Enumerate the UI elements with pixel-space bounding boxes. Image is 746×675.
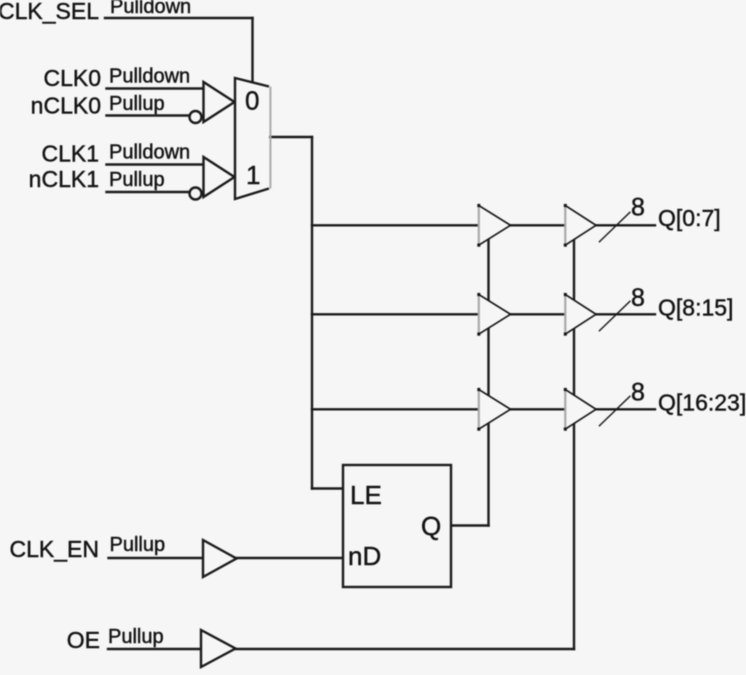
svg-text:LE: LE (350, 480, 382, 510)
buffer row3 stage1 (477, 388, 510, 431)
svg-text:Pulldown: Pulldown (109, 66, 190, 88)
bus slash row1 (599, 212, 630, 242)
buffer row2 stage1 (477, 293, 510, 336)
buffer row1 stage2 (564, 204, 596, 247)
wire branch row2 (312, 313, 479, 315)
wire latch Q output (451, 524, 489, 526)
svg-text:8: 8 (631, 194, 645, 222)
wire branch row3 (312, 408, 479, 410)
inverting bubble nCLK0 (190, 111, 202, 123)
bus slash row2 (599, 301, 630, 331)
svg-text:8: 8 (631, 379, 645, 407)
svg-text:Q[0:7]: Q[0:7] (658, 205, 721, 231)
buffer OE (201, 630, 236, 667)
svg-text:Q[16:23]: Q[16:23] (658, 390, 746, 416)
svg-text:1: 1 (246, 160, 260, 190)
svg-text:Pulldown: Pulldown (109, 142, 190, 164)
wire mux output to trunk (269, 136, 312, 138)
wire CLK_EN buffer to nD pin (237, 557, 344, 559)
differential input buffer CLK0/nCLK0 (204, 82, 235, 122)
svg-text:Q[8:15]: Q[8:15] (658, 295, 733, 321)
wire trunk to LE pin (312, 487, 343, 489)
differential input buffer CLK1/nCLK1 (204, 157, 235, 197)
svg-text:CLK_SEL: CLK_SEL (0, 0, 99, 24)
svg-text:nCLK1: nCLK1 (29, 166, 99, 192)
wire row3 stage link (511, 408, 566, 410)
svg-text:Pullup: Pullup (109, 93, 165, 115)
wire row1 output (596, 224, 655, 226)
bus slash row3 (599, 396, 630, 426)
svg-text:Q: Q (421, 511, 441, 541)
latch box (343, 465, 451, 587)
wire CLK1 (107, 163, 204, 165)
buffer row3 stage2 (564, 388, 596, 431)
wire latch enable column vertical (487, 230, 489, 526)
svg-text:nCLK0: nCLK0 (31, 93, 101, 119)
wire CLK_EN input (109, 557, 204, 559)
wire OE to output enable column (236, 648, 575, 650)
wire OE input (108, 648, 201, 650)
svg-text:8: 8 (631, 284, 645, 312)
wire CLK_SEL vertical to mux select (251, 18, 253, 84)
clock select mux (235, 78, 270, 199)
svg-text:CLK1: CLK1 (41, 141, 99, 167)
svg-text:CLK0: CLK0 (43, 65, 101, 91)
wire row1 stage link (511, 224, 566, 226)
buffer CLK_EN (203, 540, 237, 577)
buffer row1 stage1 (477, 204, 510, 247)
wire output enable column vertical (573, 230, 575, 649)
svg-text:nD: nD (348, 541, 381, 571)
wire CLK0 (107, 87, 204, 89)
wire row2 output (596, 313, 655, 315)
svg-text:Pullup: Pullup (108, 626, 164, 648)
svg-text:OE: OE (67, 627, 100, 653)
wire trunk vertical (311, 137, 313, 489)
wire branch row1 (312, 224, 479, 226)
wire nCLK1 (107, 191, 190, 193)
svg-text:Pullup: Pullup (110, 534, 166, 556)
svg-text:Pullup: Pullup (109, 169, 165, 191)
wire CLK_SEL horizontal (105, 17, 253, 19)
wire row3 output (596, 408, 655, 410)
svg-text:CLK_EN: CLK_EN (10, 536, 99, 562)
buffer row2 stage2 (564, 293, 596, 336)
svg-text:Pulldown: Pulldown (110, 0, 191, 18)
inverting bubble nCLK1 (190, 188, 202, 200)
svg-text:0: 0 (245, 86, 259, 116)
wire row2 stage link (511, 313, 566, 315)
wire nCLK0 (107, 114, 190, 116)
